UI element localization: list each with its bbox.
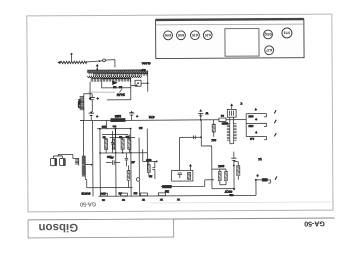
Gibson logo box (28, 219, 174, 238)
wire stage2 connections (212, 169, 226, 185)
resistor R7 (187, 172, 190, 179)
node cluster dot (233, 165, 235, 167)
node heater dot (99, 60, 101, 62)
resistor R11 (212, 124, 215, 132)
svg-text:6V6: 6V6 (178, 33, 184, 37)
heater twisted-pair wire (60, 61, 87, 64)
wire V3 below (138, 137, 140, 196)
svg-text:47M: 47M (148, 115, 154, 119)
wire R3 leads (105, 138, 107, 153)
wire bus to grid (107, 120, 116, 137)
svg-text:1M: 1M (139, 126, 143, 130)
coupling capacitor C13 (106, 160, 120, 165)
output jack J4 slash (275, 176, 277, 179)
svg-text:5Y3: 5Y3 (284, 31, 290, 35)
tone network loop (227, 109, 236, 117)
svg-text:+: + (96, 115, 98, 119)
input jack J1 (246, 114, 266, 117)
node bus junction (200, 119, 202, 121)
speaker voice coil (50, 158, 65, 165)
capacitor C9 (231, 157, 236, 159)
capacitor C8 (229, 111, 233, 116)
PI loop (172, 170, 193, 181)
tube socket V7 6SJ7 (265, 46, 274, 55)
coupling cluster R20 (143, 149, 157, 161)
rectifier V6 loop (102, 79, 131, 88)
switch S1 box (135, 80, 141, 86)
output jack J4 node (255, 179, 257, 181)
svg-text:GA-50: GA-50 (304, 219, 325, 226)
interstage transformer T3 left (227, 124, 230, 141)
wire coupling top (179, 136, 200, 138)
wire OT top to bus (83, 121, 85, 157)
tube socket V2 6V6 (177, 31, 186, 40)
speaker field winding (60, 158, 66, 165)
wire R21 (127, 165, 129, 187)
resistor R9 (218, 171, 221, 180)
wire ground bus (98, 194, 256, 197)
tube socket V5 6SQ7 (264, 30, 273, 39)
resistor R22 (112, 139, 115, 150)
rectifier tabs (113, 86, 117, 88)
wire T1 left lead (89, 82, 91, 98)
resistor R17 (140, 193, 147, 196)
capacitor C7 (152, 168, 155, 170)
wire grid network top (97, 129, 135, 138)
resistor R14 (237, 166, 240, 176)
label A-1 box (262, 178, 268, 181)
wire B+ bus (80, 120, 246, 121)
resistor R16 (120, 193, 127, 196)
wire heater right (87, 61, 103, 62)
scan crease line (150, 202, 331, 203)
resistor R21 (127, 170, 130, 180)
output jack J4 (256, 180, 271, 183)
capacitor C2 electrolytic (90, 111, 93, 113)
svg-text:K: K (240, 102, 242, 106)
wire AC drop (147, 70, 149, 91)
wire rectifier right (131, 84, 136, 86)
svg-text:30M: 30M (248, 115, 253, 118)
svg-text:SW: SW (141, 68, 146, 72)
arrow jack J4 (257, 175, 259, 177)
capacitor C14 (193, 136, 195, 140)
svg-text:1M: 1M (134, 192, 138, 196)
wire loop bottom stub (107, 88, 131, 100)
wire heater tap up (71, 55, 73, 62)
wire OT bottom (85, 176, 132, 187)
wire tone arrow (231, 105, 233, 109)
svg-text:10K: 10K (211, 138, 216, 142)
power transformer T1 secondary loops (87, 76, 141, 78)
tube socket V4 6J5 (203, 31, 212, 40)
wire C1 down (91, 101, 93, 112)
resistor R5 (128, 139, 131, 150)
svg-text:FIELD: FIELD (77, 99, 81, 108)
svg-text:6J5: 6J5 (192, 33, 198, 37)
wire jack bus vertical (245, 114, 247, 137)
svg-text:100K: 100K (218, 164, 224, 168)
svg-text:6V6TB: 6V6TB (81, 191, 90, 195)
wire C2 to bus (90, 116, 92, 120)
resistor R3 (104, 139, 107, 150)
power transformer T1 winding comb (94, 73, 148, 76)
wire T1 center tap (96, 66, 98, 70)
svg-text:.05: .05 (131, 160, 135, 164)
resistor R1 on bus (110, 118, 125, 122)
wire to transformer primary (105, 60, 115, 68)
wire OT tap arrow (85, 164, 91, 166)
arrow jack feed 3 (255, 132, 257, 134)
svg-text:6L6GA: 6L6GA (142, 61, 151, 65)
svg-text:ME2: ME2 (115, 114, 122, 118)
svg-text:250: 250 (106, 155, 111, 159)
wire cross link (100, 152, 147, 154)
node C14 dot (200, 136, 202, 138)
power transformer secondary comb 2 (91, 78, 131, 82)
wire choke top (84, 94, 92, 97)
ground G1 (233, 186, 235, 188)
svg-text:10M: 10M (249, 124, 254, 127)
wire cluster links (234, 162, 238, 186)
wire vertical 2 (115, 129, 117, 196)
pilot lamp circle (103, 59, 106, 62)
svg-text:6J7: 6J7 (266, 48, 272, 52)
wire C3 to bus (131, 116, 133, 120)
wire vertical V1 plate (99, 129, 101, 196)
svg-text:6J5: 6J5 (205, 33, 211, 37)
svg-text:2AA8: 2AA8 (117, 93, 125, 97)
wire plate line (92, 121, 94, 197)
arrow jack feed 1 (255, 109, 257, 111)
svg-text:Gibson: Gibson (38, 221, 78, 233)
capacitor C3 electrolytic (130, 111, 133, 113)
svg-text:250: 250 (101, 192, 106, 196)
power transformer T1 primary sawtooth (87, 71, 148, 74)
capacitor C4 on bus (200, 113, 202, 120)
svg-text:um#: um# (146, 158, 152, 162)
input jack J2 (246, 123, 266, 126)
wire PI vertical (178, 137, 180, 170)
label 2AA8 (119, 89, 122, 93)
output transformer T2 primary (82, 156, 86, 176)
svg-text:6V6: 6V6 (165, 33, 171, 37)
svg-text:x1: x1 (258, 157, 262, 161)
wire stage2 vertical (212, 168, 234, 189)
arrow jack feed 2 (255, 119, 257, 121)
border frame (27, 14, 333, 212)
wire R11 leads (213, 120, 215, 137)
svg-text:GA-50: GA-50 (80, 201, 96, 207)
wire T3 connections (230, 117, 234, 144)
arrowhead on bus (125, 195, 127, 197)
capacitor C5 (178, 173, 182, 178)
node dots link (122, 152, 124, 154)
title rule line (28, 218, 334, 220)
svg-text:W: W (205, 111, 208, 115)
svg-text:+: + (97, 97, 99, 101)
capacitor C10 (111, 131, 115, 153)
tube socket V6 5Y3 (282, 28, 292, 38)
wire down from bus (201, 120, 212, 168)
resistor R10 (225, 171, 228, 180)
capacitor C1 electrolytic (91, 94, 93, 98)
faint lead line (88, 91, 116, 93)
svg-text:1.M: 1.M (250, 137, 254, 140)
resistor R4 (121, 139, 124, 150)
svg-text:6SQ: 6SQ (264, 32, 271, 36)
wire R4 leads (122, 138, 124, 153)
wire switch to line (141, 82, 148, 84)
resistor R15 (100, 193, 107, 196)
wire vertical 3 (130, 129, 132, 196)
svg-text:303: 303 (101, 125, 106, 129)
svg-text:+: + (136, 115, 138, 119)
resistor R2 on bus (219, 118, 226, 122)
wire vertical 5 (146, 129, 148, 171)
wire stage link (161, 180, 214, 187)
resistor R18 (158, 193, 165, 196)
svg-text:um: um (113, 125, 117, 128)
power transformer T1 core strip (87, 69, 145, 71)
capacitor C11 (125, 153, 129, 167)
wire choke bottom to bus (80, 110, 84, 121)
wire C7 vertical (154, 161, 156, 179)
node dots cluster (99, 128, 101, 130)
tube socket V3 6J5 (191, 31, 200, 40)
output transformer T2 secondary (75, 158, 79, 165)
wire J4 to ground bus (255, 180, 257, 195)
wire R5 leads (128, 134, 130, 152)
field coil choke L1 (80, 97, 84, 111)
arrow PI grid (189, 166, 191, 170)
wire speaker bracket (53, 154, 75, 158)
tube socket V1 6V6 (164, 31, 173, 40)
resistor R8 dark (162, 185, 172, 188)
rectifier plate triangle (112, 81, 118, 85)
resistor R20 (147, 165, 150, 173)
input jack J3 (246, 136, 266, 139)
node circle small (136, 178, 139, 181)
svg-text:6SQ7: 6SQ7 (224, 190, 232, 194)
chassis opening rectangle (225, 29, 259, 57)
svg-text:1M: 1M (126, 135, 130, 139)
interstage transformer T3 right (234, 124, 237, 141)
heater left terminal (57, 61, 60, 64)
tube location chart box (156, 19, 305, 59)
